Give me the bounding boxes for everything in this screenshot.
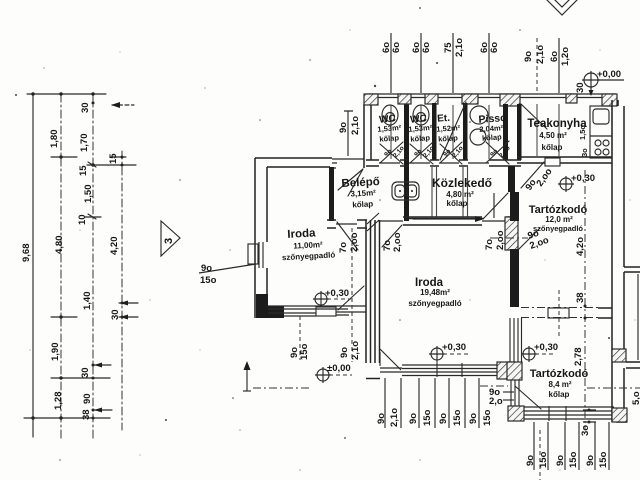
- svg-text:15: 15: [78, 165, 89, 176]
- svg-text:±0,00: ±0,00: [327, 363, 351, 374]
- svg-text:19,48m²: 19,48m²: [420, 288, 450, 297]
- entry arrow in Közlekedő: [413, 218, 478, 220]
- svg-text:1,50: 1,50: [83, 185, 94, 204]
- svg-text:9o: 9o: [523, 51, 534, 62]
- triangle marker 3: [161, 221, 180, 256]
- room: Iroda 19: [408, 277, 461, 308]
- svg-text:15o: 15o: [538, 451, 549, 468]
- ext dashed line Iroda11 window: [299, 316, 301, 360]
- wall cap at divider bottom: [366, 378, 380, 380]
- door swing Iroda19->Közlekedő: [484, 193, 508, 218]
- extension line in Iroda19 right door gap: [493, 193, 495, 218]
- label 30 at Tartózkodó8 bottom right: [583, 410, 596, 422]
- svg-text:kőlap: kőlap: [482, 132, 503, 142]
- door swing Tartózkodó12 left wall: [519, 228, 540, 249]
- ext line Et window: [452, 33, 454, 93]
- door swing WC2: [410, 142, 433, 164]
- door swing Pisso: [486, 141, 509, 164]
- jog B to canvas edge: [626, 362, 640, 368]
- tick bottom: [24, 417, 110, 419]
- door swing Iroda19 terrace door: [380, 349, 401, 370]
- svg-text:9o: 9o: [585, 455, 596, 466]
- tick 15 step: [110, 156, 126, 158]
- svg-text:4,2o: 4,2o: [575, 237, 586, 256]
- ext line WC2 window: [420, 33, 422, 93]
- room: Pisso: [478, 112, 508, 143]
- tick 1,80 end: [51, 156, 77, 158]
- tick 30 arrow mid: [94, 364, 111, 366]
- svg-text:30: 30: [80, 367, 91, 378]
- wall: WC divider 2 (filled): [432, 103, 437, 160]
- level +0,30 Tartózkodó12: [558, 173, 595, 192]
- wall: Közlekedő bottom edge: [409, 218, 484, 220]
- room: Teakonyha: [527, 118, 587, 152]
- ext line Pisso window: [488, 33, 490, 93]
- svg-text:8,4 m²: 8,4 m²: [548, 380, 571, 389]
- ext dash through partition: [558, 290, 560, 338]
- pier: Iroda19 top right: [505, 217, 518, 250]
- svg-text:4,50 m²: 4,50 m²: [539, 131, 567, 140]
- door swing Et: [440, 102, 466, 164]
- wall: WC block left: [364, 104, 371, 168]
- svg-text:30: 30: [575, 82, 586, 93]
- svg-text:szőnyegpadló: szőnyegpadló: [408, 299, 461, 308]
- kitchen counter Teakonyha: [590, 106, 612, 158]
- window band: Tartózkodó8 bottom: [524, 407, 614, 419]
- svg-text:30: 30: [80, 102, 91, 113]
- window: Tartózkodó8 left: [511, 380, 519, 406]
- tick top: [27, 93, 106, 95]
- dim line L4: [121, 151, 123, 430]
- svg-text:9o: 9o: [338, 122, 349, 133]
- svg-text:4,20: 4,20: [109, 237, 120, 256]
- urinal Pisso top: [470, 106, 488, 124]
- svg-text:15o: 15o: [299, 343, 310, 360]
- door swing Tartózkodó8 left: [515, 386, 541, 409]
- toilet WC2: [413, 105, 429, 125]
- room: Tartózkodó 8: [530, 368, 589, 399]
- dim 30 arrow: [112, 104, 134, 106]
- dim line L1: [32, 94, 34, 437]
- pier: Iroda19 bottom right: [497, 362, 515, 379]
- svg-text:kőlap: kőlap: [447, 199, 468, 208]
- svg-text:+0,30: +0,30: [325, 288, 349, 299]
- svg-text:9o: 9o: [339, 347, 350, 358]
- pier: Pisso/Teakonyha spine top: [500, 94, 520, 106]
- tick 4,80 end: [51, 316, 77, 318]
- svg-text:7o: 7o: [338, 242, 349, 253]
- wall: Tartózkodó12 left lower (filled): [510, 249, 519, 307]
- svg-text:9o: 9o: [376, 413, 387, 424]
- svg-text:kőlap: kőlap: [438, 133, 459, 143]
- level +0,30 Iroda19: [429, 342, 468, 376]
- wall: Iroda11 left inner upper: [266, 167, 268, 242]
- svg-text:6o: 6o: [549, 51, 560, 62]
- svg-text:9o: 9o: [438, 413, 449, 424]
- double washbasin at Belépő/Közlekedő wall: [392, 182, 419, 200]
- hatch block right wall: [612, 349, 626, 362]
- room: Iroda 11: [280, 226, 335, 262]
- svg-text:2,1o: 2,1o: [535, 45, 546, 64]
- wall: WC row bottom segments: [366, 160, 521, 166]
- svg-text:6o: 6o: [489, 42, 500, 53]
- pier: WC1/WC2: [398, 94, 411, 104]
- dim line L2: [60, 94, 62, 440]
- svg-text:Tartózkodó: Tartózkodó: [530, 368, 589, 380]
- svg-text:1,90: 1,90: [50, 343, 61, 362]
- wall: Iroda11 bottom corner L filled: [256, 294, 284, 318]
- pier: Tartózkodó8 bottom right corner: [612, 408, 627, 422]
- tick 30 upper L4: [119, 302, 138, 304]
- tick 10: [85, 216, 101, 218]
- tick 1,90 end: [51, 377, 110, 379]
- svg-text:+0,30: +0,30: [442, 342, 466, 353]
- Belépő top door dim: [344, 111, 353, 156]
- threshold: Belépő doors: [336, 221, 506, 224]
- svg-text:4,80: 4,80: [54, 236, 65, 255]
- wall: Iroda11/19 divider: [366, 220, 380, 363]
- wall: Iroda11 left inner lower: [266, 268, 268, 296]
- door swing Belépő->Iroda11: [337, 222, 358, 250]
- thresholds: [379, 162, 489, 164]
- svg-text:90: 90: [82, 393, 93, 404]
- svg-text:9,68: 9,68: [21, 244, 32, 263]
- window: Iroda11 left wall: [259, 242, 263, 268]
- door swing Belépő->Iroda19: [382, 225, 402, 247]
- Iroda19 bottom chain: [385, 378, 479, 428]
- svg-text:12,0 m²: 12,0 m²: [545, 215, 573, 224]
- svg-text:+0,30: +0,30: [534, 342, 558, 353]
- svg-text:6o: 6o: [391, 42, 402, 53]
- svg-text:1,40: 1,40: [82, 292, 93, 311]
- pier: top right corner: [602, 94, 617, 106]
- svg-text:3,15m²: 3,15m²: [350, 188, 376, 198]
- svg-text:15o: 15o: [568, 451, 579, 468]
- wall: Teakonyha left (filled): [517, 104, 522, 160]
- wall: WC divider 3 (filled): [463, 103, 468, 160]
- svg-text:7o: 7o: [484, 239, 495, 250]
- wall: Közlekedő right upper (filled): [508, 166, 515, 192]
- wall: Tartózkodó12 left upper (filled): [510, 192, 519, 221]
- level +0,30 Tartózkodó8: [521, 342, 558, 362]
- ext dashed line Iroda11 door: [351, 228, 353, 362]
- partition notch at right wall: [598, 308, 612, 318]
- wall: Belépő left (filled): [329, 167, 334, 221]
- door swing WC1: [380, 142, 403, 164]
- svg-text:38: 38: [575, 292, 586, 303]
- toilet WC1: [382, 105, 398, 125]
- right vertical chain: [584, 170, 586, 430]
- svg-text:10: 10: [77, 214, 88, 225]
- svg-text:9o: 9o: [525, 455, 536, 466]
- door swing Teakonyha entry: [521, 104, 547, 129]
- room: Belépő: [341, 176, 381, 210]
- level +0,30 Iroda11: [313, 288, 351, 307]
- level +0,00 top right: [575, 69, 624, 96]
- svg-text:30: 30: [110, 309, 121, 320]
- svg-text:15o: 15o: [452, 409, 463, 426]
- door swing Iroda11 terrace: [338, 286, 364, 310]
- pier: Tartózkodó8 bottom left corner: [508, 406, 524, 421]
- svg-text:kőlap: kőlap: [379, 133, 400, 144]
- window band: Iroda19/Tartózkodó8 wall: [510, 318, 522, 362]
- svg-text:1,52m²: 1,52m²: [436, 123, 461, 134]
- svg-text:Iroda: Iroda: [287, 227, 316, 240]
- pier: Et/Pisso: [462, 94, 478, 104]
- section arrow bottom left: [243, 361, 310, 391]
- svg-text:2,1o: 2,1o: [454, 38, 465, 57]
- wall: WC top band glazing: [366, 94, 616, 98]
- svg-text:15: 15: [108, 153, 119, 164]
- svg-text:1,2o: 1,2o: [560, 47, 571, 66]
- room: Tartózkodó 12: [529, 204, 588, 233]
- tick 1,70 end: [87, 164, 136, 166]
- svg-text:15o: 15o: [482, 409, 493, 426]
- corner hatch Iroda19 top-left: [367, 213, 379, 231]
- svg-text:5,o: 5,o: [631, 391, 640, 405]
- svg-text:1,28: 1,28: [53, 392, 64, 411]
- room: WC1: [376, 113, 403, 144]
- svg-text:9o: 9o: [468, 413, 479, 424]
- svg-text:15o: 15o: [200, 275, 217, 286]
- svg-text:15o: 15o: [598, 451, 609, 468]
- wall: right outer: [612, 100, 624, 422]
- dim line L3: [92, 94, 94, 441]
- svg-text:1,70: 1,70: [79, 134, 90, 153]
- svg-text:szőnyegpadló: szőnyegpadló: [533, 224, 583, 233]
- Tartózkodó8 bottom chain: [534, 422, 609, 470]
- wall: Teakonyha bottom: [517, 157, 612, 163]
- partition: Tartózkodó12/8 dashdot: [521, 308, 598, 318]
- wall: Belépő bottom / Iroda19 top: [327, 220, 367, 228]
- svg-text:2,oo: 2,oo: [392, 232, 403, 252]
- threshold Iroda19 bottom door: [380, 368, 402, 372]
- svg-text:kőlap: kőlap: [410, 133, 431, 144]
- svg-text:2,1o: 2,1o: [350, 341, 361, 360]
- svg-text:2,o: 2,o: [489, 396, 503, 407]
- wall: porch link to WC block: [332, 159, 364, 168]
- svg-text:9o: 9o: [408, 413, 419, 424]
- svg-text:2,1o: 2,1o: [350, 116, 361, 135]
- door swing Teakonyha->Tartózkodó12: [521, 162, 544, 188]
- svg-text:38: 38: [81, 409, 92, 420]
- wall: Iroda11 left outer: [254, 158, 256, 318]
- window band: Iroda11 bottom: [268, 306, 366, 316]
- wall: Iroda11 top inner: [267, 166, 330, 168]
- svg-text:11,00m²: 11,00m²: [293, 240, 323, 251]
- svg-text:1,80: 1,80: [49, 130, 60, 149]
- dashdot leader right bottom: [587, 387, 640, 389]
- level ±0,00 outside: [315, 363, 352, 383]
- svg-text:1,5o: 1,5o: [578, 125, 587, 140]
- window band: Iroda19 bottom: [402, 365, 497, 376]
- svg-text:Közlekedő: Közlekedő: [432, 176, 492, 190]
- tick 30 lower L4: [119, 316, 138, 318]
- thin partition lines through Közlekedő: [432, 167, 468, 217]
- svg-text:kőlap: kőlap: [352, 199, 373, 209]
- svg-text:9o: 9o: [555, 455, 566, 466]
- svg-text:4,80 m²: 4,80 m²: [446, 190, 474, 199]
- svg-text:3o: 3o: [580, 148, 589, 157]
- wall: Tartózkodó8 left pier: [507, 362, 522, 380]
- svg-text:2,1o: 2,1o: [389, 408, 400, 427]
- jog A to canvas edge: [624, 267, 640, 272]
- wc door scrawls: [383, 145, 512, 159]
- svg-text:kőlap: kőlap: [549, 390, 570, 399]
- pier: WC2/Et: [425, 94, 438, 104]
- door swing Belépő entry: [338, 169, 363, 196]
- svg-text:+0,00: +0,00: [597, 69, 621, 80]
- wall: Pisso right (filled): [503, 104, 508, 160]
- ext line WC1 window: [390, 33, 392, 93]
- ext line Teakonyha door: [536, 38, 538, 94]
- pier: Teakonyha mid: [566, 94, 577, 103]
- svg-text:Et.: Et.: [437, 113, 451, 125]
- pier: WC top left corner: [364, 94, 378, 105]
- svg-text:15o: 15o: [422, 409, 433, 426]
- svg-text:2,oo: 2,oo: [349, 232, 360, 252]
- svg-text:2,oo: 2,oo: [495, 230, 506, 250]
- room: WC2: [407, 113, 434, 144]
- edge line right: [637, 274, 639, 360]
- north diamond top: [545, 0, 579, 15]
- room: Et.: [435, 112, 461, 144]
- svg-text:+0,30: +0,30: [571, 173, 595, 184]
- svg-text:2,78: 2,78: [573, 348, 584, 367]
- svg-text:3: 3: [163, 238, 175, 244]
- ext line Teakonyha window: [558, 38, 560, 93]
- tick 38 arrow: [94, 409, 112, 411]
- wall: Belépő/Közlekedő divider w/ WC divider above (filled): [404, 103, 409, 221]
- svg-text:75: 75: [443, 42, 454, 53]
- svg-text:6o: 6o: [421, 42, 432, 53]
- room: Közlekedő: [432, 176, 492, 208]
- wall: Iroda11 top outer: [255, 157, 332, 159]
